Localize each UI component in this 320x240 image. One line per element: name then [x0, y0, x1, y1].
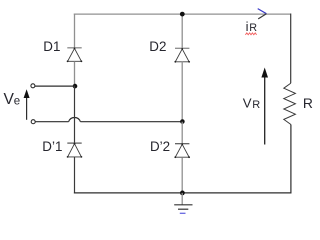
wire left branch A to D'1: [74, 86, 76, 143]
wire D1 lower: [74, 61, 76, 86]
svg-text:i: i: [246, 19, 249, 34]
terminal bottom circle: [31, 120, 35, 124]
svg-text:R: R: [249, 22, 257, 34]
node A junction: [73, 84, 78, 89]
wire D'2 base to ground junction: [181, 157, 183, 193]
resistor R: [284, 83, 296, 124]
svg-text:e: e: [14, 96, 20, 108]
node B junction: [180, 119, 185, 124]
ground: [174, 193, 192, 213]
svg-text:R: R: [252, 99, 260, 111]
wire D1 branch upper: [74, 14, 76, 49]
diode D'2: [174, 143, 190, 158]
wire right rail lower: [290, 125, 292, 193]
source arrow Ve: [24, 89, 30, 120]
wire right rail upper: [290, 14, 292, 84]
svg-text:D’1: D’1: [42, 139, 62, 154]
wire top input: [35, 85, 76, 87]
wire D'1 base to bottom rail: [74, 157, 76, 194]
arrow VR: [261, 68, 268, 145]
diode D'1: [67, 143, 83, 158]
svg-text:D2: D2: [149, 39, 166, 54]
svg-text:D’2: D’2: [150, 139, 170, 154]
svg-text:V: V: [243, 96, 252, 111]
wire D2 branch upper: [181, 14, 183, 49]
label iR: [245, 19, 257, 35]
wire D2 lower to node B: [181, 62, 183, 122]
wire hop over left branch: [69, 118, 81, 122]
svg-text:R: R: [303, 95, 313, 111]
wire bottom rail: [74, 192, 292, 194]
diode D2: [174, 48, 190, 63]
terminal top circle: [31, 84, 35, 88]
wire top rail: [74, 13, 291, 15]
label VR: [243, 96, 260, 112]
wire bottom input left: [35, 121, 68, 123]
svg-text:D1: D1: [43, 39, 60, 54]
node ground junction: [180, 191, 185, 196]
wire bottom input right: [80, 121, 182, 123]
diode D1: [67, 48, 83, 63]
wire node B to D'2: [181, 122, 183, 144]
node top rail junction: [180, 12, 185, 17]
current arrow iR: [258, 9, 267, 19]
